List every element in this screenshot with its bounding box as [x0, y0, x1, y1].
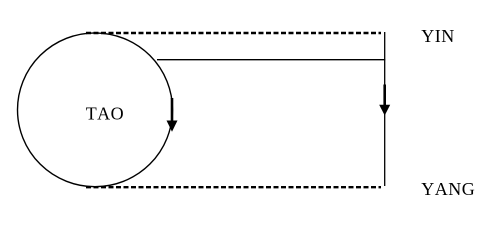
top dashed line (YIN boundary) — [86, 32, 381, 34]
svg-text:TAO: TAO — [86, 104, 125, 124]
circle TAO — [18, 33, 173, 187]
arrow on circle edge — [167, 98, 178, 132]
svg-text:YIN: YIN — [421, 26, 455, 46]
svg-text:YANG: YANG — [421, 179, 475, 199]
arrow on vertical line — [379, 85, 390, 116]
right vertical line — [384, 32, 386, 186]
solid horizontal line — [157, 59, 385, 61]
bottom dashed line (YANG boundary) — [86, 186, 381, 188]
